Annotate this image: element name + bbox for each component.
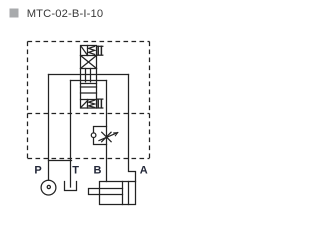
U2 divider 3 xyxy=(81,99,97,101)
U1 solenoid divider xyxy=(87,46,89,56)
U2 divider 1 xyxy=(81,86,97,88)
U2 divider 2 xyxy=(81,92,97,94)
dashed envelope bottom edge xyxy=(28,158,150,160)
throttle arcs xyxy=(102,132,111,142)
check valve ball xyxy=(91,133,96,138)
interface channel stub 2 xyxy=(85,69,87,82)
U1 detent II top xyxy=(98,46,101,55)
throttle adjust arrow xyxy=(99,133,118,141)
pump inner circle xyxy=(47,185,50,188)
dashed divider between modules xyxy=(28,113,150,115)
interface channel stub 4 xyxy=(96,69,98,84)
wire B drop xyxy=(106,81,108,182)
svg-text:A: A xyxy=(140,165,148,177)
check valve bypass loop xyxy=(94,127,107,133)
cylinder body xyxy=(100,182,136,205)
title bullet square xyxy=(10,9,19,18)
pump circle xyxy=(41,180,56,195)
U1 section divider xyxy=(81,55,97,57)
wire T drop xyxy=(70,81,72,188)
tank symbol xyxy=(65,182,77,191)
wire P drop xyxy=(48,75,50,181)
interface channel stub 3 xyxy=(90,69,92,82)
U2 spring xyxy=(89,100,95,107)
svg-text:MTC-02-B-I-10: MTC-02-B-I-10 xyxy=(27,8,104,20)
U1 spring xyxy=(89,46,95,54)
valve U1 body (upper directional valve) xyxy=(81,46,97,69)
cylinder rod xyxy=(89,189,123,195)
interface channel stub 1 xyxy=(80,69,82,84)
svg-text:T: T xyxy=(72,165,79,177)
wire P-A interface xyxy=(49,74,129,76)
svg-text:B: B xyxy=(94,165,102,177)
cylinder piston line 2 xyxy=(128,182,130,205)
wire P-T link xyxy=(49,160,72,162)
wire T-B interface xyxy=(71,80,107,82)
svg-text:P: P xyxy=(34,164,41,176)
U2 solenoid divider xyxy=(87,100,89,109)
U2 detent II bottom xyxy=(98,99,101,107)
U1 crossed position X xyxy=(81,56,97,69)
U1 solenoid diagonal xyxy=(81,46,87,55)
U2 solenoid diagonal xyxy=(81,100,88,107)
valve U2 body (lower module) xyxy=(81,84,97,109)
dashed envelope box 1 (upper module) xyxy=(28,42,150,159)
wire A drop xyxy=(129,75,136,182)
cylinder piston line 1 xyxy=(122,182,124,205)
